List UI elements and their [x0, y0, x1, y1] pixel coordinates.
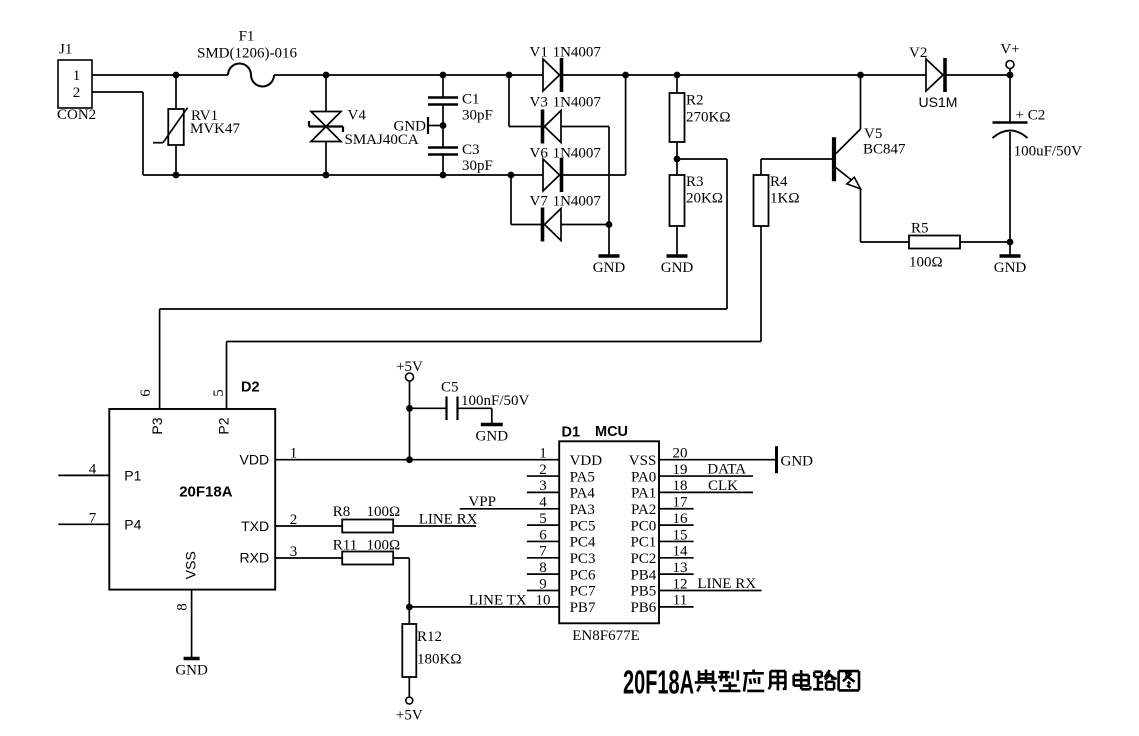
svg-text:P4: P4: [124, 516, 141, 532]
svg-text:7: 7: [89, 510, 97, 526]
svg-text:LINE RX: LINE RX: [419, 512, 478, 528]
svg-text:R2: R2: [686, 93, 704, 109]
svg-text:PB4: PB4: [630, 567, 656, 583]
svg-text:GND: GND: [994, 260, 1027, 276]
svg-text:R4: R4: [770, 174, 788, 190]
svg-text:PC3: PC3: [570, 551, 596, 567]
svg-text:GND: GND: [661, 260, 694, 276]
svg-text:RXD: RXD: [240, 550, 270, 566]
svg-text:F1: F1: [239, 29, 255, 45]
svg-text:P1: P1: [124, 467, 141, 483]
svg-text:PC2: PC2: [630, 551, 656, 567]
svg-text:C5: C5: [441, 380, 459, 396]
svg-text:+5V: +5V: [396, 359, 423, 375]
svg-text:8: 8: [174, 603, 190, 611]
svg-text:10: 10: [536, 593, 551, 609]
svg-text:PC1: PC1: [630, 535, 656, 551]
svg-text:PB7: PB7: [570, 600, 596, 616]
svg-text:R5: R5: [911, 221, 929, 237]
svg-text:270KΩ: 270KΩ: [686, 110, 730, 126]
svg-text:PA5: PA5: [570, 469, 595, 485]
svg-text:100nF/50V: 100nF/50V: [461, 393, 530, 409]
svg-text:V2: V2: [909, 45, 927, 61]
svg-text:VSS: VSS: [629, 453, 657, 469]
svg-text:100Ω: 100Ω: [909, 255, 943, 271]
svg-text:20KΩ: 20KΩ: [686, 191, 723, 207]
svg-text:+ C2: + C2: [1016, 108, 1046, 124]
svg-text:PA2: PA2: [631, 502, 656, 518]
svg-text:MCU: MCU: [595, 424, 628, 440]
svg-text:R11: R11: [333, 538, 357, 554]
svg-text:20F18A: 20F18A: [623, 664, 694, 701]
svg-text:CLK: CLK: [708, 478, 738, 494]
svg-text:P2: P2: [216, 417, 232, 434]
svg-text:GND: GND: [781, 454, 814, 470]
svg-text:US1M: US1M: [919, 94, 958, 110]
svg-text:LINE RX: LINE RX: [697, 576, 756, 592]
svg-text:4: 4: [89, 461, 97, 477]
svg-text:TXD: TXD: [241, 518, 269, 534]
svg-text:100Ω: 100Ω: [367, 504, 401, 520]
svg-text:V1: V1: [530, 45, 548, 61]
svg-text:1N4007: 1N4007: [553, 194, 602, 210]
svg-text:CON2: CON2: [57, 107, 96, 123]
svg-text:R12: R12: [417, 629, 442, 645]
svg-text:EN8F677E: EN8F677E: [572, 628, 640, 644]
svg-text:GND: GND: [476, 429, 509, 445]
svg-text:1: 1: [539, 446, 547, 462]
svg-text:C3: C3: [462, 142, 480, 158]
svg-text:D2: D2: [241, 380, 260, 396]
svg-text:VPP: VPP: [468, 494, 496, 510]
svg-text:7: 7: [539, 544, 547, 560]
svg-text:D1: D1: [562, 425, 581, 441]
svg-text:6: 6: [138, 389, 154, 397]
svg-text:1: 1: [73, 68, 81, 84]
svg-text:DATA: DATA: [707, 462, 746, 478]
svg-text:5: 5: [539, 511, 547, 527]
svg-text:5: 5: [211, 389, 227, 397]
svg-text:3: 3: [539, 478, 547, 494]
svg-text:1N4007: 1N4007: [553, 146, 602, 162]
svg-text:6: 6: [539, 527, 547, 543]
svg-text:180KΩ: 180KΩ: [417, 652, 461, 668]
svg-text:V4: V4: [348, 108, 367, 124]
svg-text:PC4: PC4: [570, 535, 596, 551]
svg-text:V5: V5: [864, 126, 882, 142]
svg-text:PB6: PB6: [630, 600, 656, 616]
svg-text:4: 4: [539, 495, 547, 511]
svg-text:PC7: PC7: [570, 584, 596, 600]
svg-text:R8: R8: [333, 504, 351, 520]
svg-text:PC6: PC6: [570, 567, 596, 583]
svg-text:2: 2: [73, 85, 81, 101]
svg-text:100uF/50V: 100uF/50V: [1014, 144, 1083, 160]
svg-text:R3: R3: [686, 174, 704, 190]
svg-text:20F18A: 20F18A: [179, 484, 233, 501]
svg-text:30pF: 30pF: [462, 158, 493, 174]
svg-text:2: 2: [539, 462, 547, 478]
svg-text:PC5: PC5: [570, 518, 596, 534]
svg-text:GND: GND: [593, 260, 626, 276]
svg-text:VDD: VDD: [570, 453, 603, 469]
svg-text:9: 9: [539, 576, 547, 592]
svg-text:PC0: PC0: [630, 518, 656, 534]
svg-text:PB5: PB5: [630, 584, 656, 600]
svg-text:GND: GND: [394, 119, 427, 135]
svg-text:PA1: PA1: [631, 486, 656, 502]
svg-text:PA4: PA4: [570, 486, 596, 502]
svg-text:VSS: VSS: [182, 551, 198, 579]
svg-text:1KΩ: 1KΩ: [770, 191, 799, 207]
svg-text:GND: GND: [175, 663, 208, 679]
svg-text:1N4007: 1N4007: [553, 45, 602, 61]
svg-text:PA3: PA3: [570, 502, 595, 518]
svg-text:100Ω: 100Ω: [367, 538, 401, 554]
svg-text:J1: J1: [59, 42, 72, 58]
svg-text:MVK47: MVK47: [190, 121, 241, 137]
svg-text:8: 8: [539, 560, 547, 576]
svg-text:VDD: VDD: [240, 452, 270, 468]
svg-text:30pF: 30pF: [462, 108, 493, 124]
svg-text:V6: V6: [530, 146, 549, 162]
svg-text:P3: P3: [149, 417, 165, 434]
svg-text:C1: C1: [462, 92, 480, 108]
svg-text:V3: V3: [530, 95, 548, 111]
svg-text:LINE TX: LINE TX: [469, 593, 527, 609]
svg-text:1N4007: 1N4007: [553, 95, 602, 111]
svg-text:PA0: PA0: [631, 469, 656, 485]
svg-text:SMD(1206)-016: SMD(1206)-016: [197, 46, 297, 62]
svg-text:V+: V+: [1000, 42, 1019, 58]
svg-text:V7: V7: [530, 194, 549, 210]
svg-text:+5V: +5V: [396, 708, 423, 724]
svg-text:BC847: BC847: [863, 142, 906, 158]
